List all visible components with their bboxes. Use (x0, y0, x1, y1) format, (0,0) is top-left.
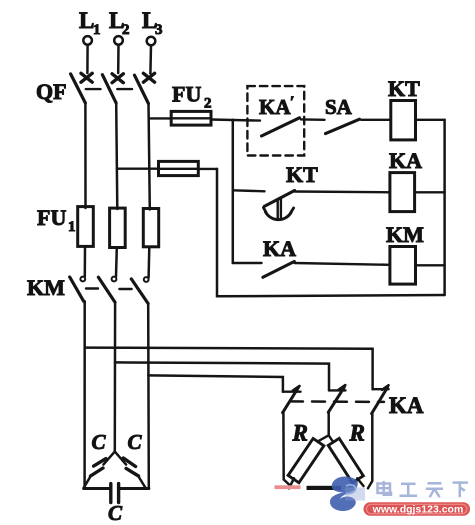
label FU2 (172, 82, 212, 112)
terminal L1 (83, 36, 92, 45)
watermark banner (364, 502, 471, 515)
wire KA contact to KM coil (295, 263, 390, 265)
time contact KT delay cup flare left (263, 208, 266, 213)
switch SA blade (326, 119, 360, 133)
svg-text:KM: KM (386, 222, 424, 247)
wire fuse FU2b to left rail (198, 168, 217, 170)
wire phase3 KM down to capacitor corner (147, 304, 150, 489)
svg-text:′: ′ (290, 94, 295, 111)
svg-text:3: 3 (155, 22, 163, 38)
svg-text:2: 2 (122, 22, 130, 38)
wire phase3 QF to FU1 (149, 104, 150, 210)
svg-text:FU: FU (172, 82, 201, 107)
fuse FU2a (171, 111, 211, 125)
wire resistor V fork left (314, 435, 329, 444)
svg-text:QF: QF (36, 79, 67, 104)
svg-text:SA: SA (325, 95, 353, 119)
relay KA' dashed box (247, 86, 304, 155)
wire L3 to QF (149, 46, 152, 74)
relay contact KA bank pole mid tick (339, 385, 346, 390)
time contact KT blade (264, 191, 294, 207)
fuse FU1 pole 2 (110, 208, 126, 247)
wire phase2 FU1 to KM (115, 248, 118, 277)
relay contact KA bank pole left blade (283, 388, 299, 413)
wire rail2 to KA contact (233, 262, 262, 264)
wire phase2 QF to FU1 (116, 103, 117, 209)
terminal L3 (147, 37, 156, 46)
breaker QF blade pole 1 (71, 74, 86, 103)
svg-text:R: R (349, 421, 365, 446)
label FU1 (37, 205, 76, 235)
node L2 label (109, 8, 130, 38)
svg-text:C: C (92, 430, 107, 454)
wire phase3 FU1 to KM (147, 247, 150, 278)
svg-text:KT: KT (388, 76, 420, 101)
coil KA (390, 173, 415, 212)
relay contact KA' blade (262, 118, 300, 136)
contactor KM pole 1 circle (80, 277, 85, 282)
coil KM (390, 247, 416, 285)
wire capacitor right lower stub (139, 477, 146, 488)
resistor R1 (288, 438, 324, 482)
watermark text 电工天下 (378, 481, 469, 497)
fuse FU1 pole 3 (143, 209, 158, 247)
svg-text:FU: FU (37, 205, 66, 230)
svg-text:KA: KA (259, 95, 291, 119)
svg-text:KT: KT (286, 162, 318, 187)
wire capacitor left lower stub (84, 477, 90, 488)
contactor KM pole 3 circle (144, 277, 149, 282)
watermark banner highlight (367, 504, 468, 513)
resistor R2 (328, 438, 363, 483)
wire rail2 to KT contact (233, 190, 265, 191)
wire control rail2 (232, 120, 235, 263)
wire resistor bottom left (faded pink) (275, 485, 301, 489)
wire FU2a to KA' box (211, 120, 260, 121)
relay contact KA bank pole mid stub (329, 389, 346, 391)
breaker QF linkage dash 2 (117, 88, 132, 90)
node L1 label (79, 8, 101, 38)
wire B phase2 to middle bank (115, 362, 329, 390)
svg-text:www.dgjs123.com: www.dgjs123.com (372, 504, 464, 516)
fuse FU2b (159, 161, 199, 175)
wire SA to KT coil (361, 119, 391, 121)
time contact KT delay cup flare right (291, 208, 294, 213)
wire phase1 QF to FU1 (84, 103, 87, 208)
time contact KT delay stem right (280, 198, 282, 219)
capacitor fork right branch (115, 452, 126, 465)
wire L1 to QF (86, 45, 89, 73)
time contact KT delay cup arc (266, 212, 292, 220)
breaker X mark pole 3 (143, 73, 154, 82)
contactor KM pole 3 blade (131, 279, 148, 304)
wire KT contact to KA coil (295, 190, 390, 193)
svg-text:C: C (128, 430, 143, 454)
contactor KM pole 2 circle (112, 277, 117, 282)
capacitor fork left branch (103, 452, 114, 465)
wire KA' to SA (301, 118, 325, 121)
wire control right rail (443, 120, 446, 295)
capacitor C left plates (91, 459, 106, 476)
wire left rail (control) (217, 169, 445, 296)
capacitor C bottom plates (111, 484, 119, 503)
breaker X mark pole 2 (112, 74, 123, 83)
breaker QF linkage dash 1 (86, 88, 101, 90)
wire phase1 FU1 to KM (84, 246, 87, 276)
wire R2 bottom stub (357, 478, 363, 486)
relay contact KA row3 blade (263, 262, 294, 278)
node L3 label (142, 8, 163, 38)
breaker X mark pole 1 (81, 73, 92, 82)
svg-text:2: 2 (204, 96, 212, 112)
wire phase1 KM down to capacitor corner (83, 301, 86, 488)
coil KT (391, 101, 416, 140)
contactor KM linkage dash 2 (119, 288, 131, 290)
relay contact KA bank pole mid blade (328, 387, 344, 412)
svg-text:KM: KM (27, 275, 65, 300)
relay contact KA bank pole right stub (373, 388, 389, 390)
contactor KM pole 2 blade (98, 277, 115, 302)
relay contact KA bank pole left stub (283, 391, 301, 393)
wire capacitor bottom left segment (84, 487, 111, 490)
svg-text:1: 1 (93, 22, 101, 38)
wire A phase1 to right bank (85, 348, 373, 390)
wire resistor V fork right (329, 435, 335, 444)
wire R1 bottom stub (289, 478, 294, 488)
svg-text:C: C (108, 501, 123, 525)
wire bank mid vertical to fork (327, 412, 330, 435)
wire KT coil to right rail (416, 119, 445, 121)
wire row1 branch from phase3 to FU2 (149, 117, 171, 119)
wire capacitor bottom right segment (119, 487, 149, 490)
contactor KM linkage dash 1 (86, 287, 98, 289)
wire L2 to QF (117, 45, 120, 73)
relay contact KA bank pole left tick (293, 386, 300, 391)
relay contact KA bank pole right blade (372, 387, 388, 413)
svg-text:1: 1 (68, 219, 76, 235)
watermark logo swoosh (330, 477, 365, 511)
wire fuse2 branch from phase2 (117, 167, 159, 169)
wire KM coil to right rail (416, 264, 445, 266)
wire bank left vertical down (283, 413, 292, 488)
wire C phase3 to left bank (148, 375, 283, 391)
wire phase2 KM down to capacitor fork (114, 302, 117, 451)
relay contact KA bank pole right tick (382, 385, 389, 390)
time contact KT delay stem left (277, 200, 279, 220)
capacitor C right plates (123, 458, 138, 476)
fuse FU1 pole 1 (78, 207, 94, 247)
breaker QF blade pole 2 (102, 75, 116, 103)
contactor KM pole 1 blade (70, 277, 84, 301)
wire bank right vertical down (368, 414, 372, 489)
breaker QF blade pole 3 (135, 75, 149, 103)
terminal L2 (114, 36, 123, 45)
svg-text:KA: KA (389, 148, 422, 173)
svg-text:R: R (292, 421, 308, 446)
wire KA coil to right rail (415, 191, 445, 193)
wire resistor bottom bar (307, 486, 342, 490)
relay contact KA bank linkage dashed (290, 400, 384, 403)
svg-text:KA: KA (389, 393, 424, 418)
svg-text:KA: KA (263, 236, 296, 261)
